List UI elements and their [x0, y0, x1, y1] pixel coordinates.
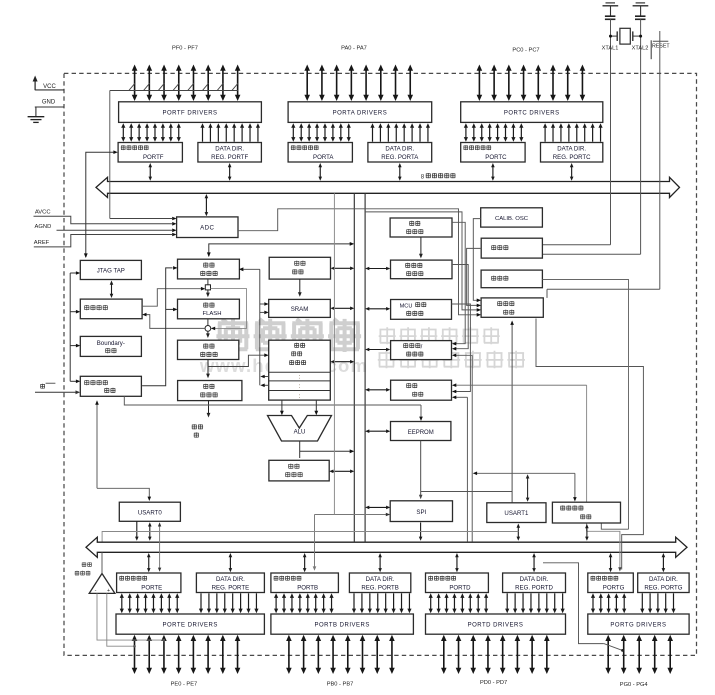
svg-text:PORTE: PORTE [141, 584, 162, 591]
svg-text:VCC: VCC [43, 84, 56, 90]
svg-text:DATA DIR.: DATA DIR. [557, 146, 586, 153]
svg-text:MCU: MCU [400, 304, 413, 310]
svg-text:GND: GND [42, 100, 56, 106]
svg-text:Boundary-: Boundary- [97, 340, 125, 347]
svg-text:JTAG TAP: JTAG TAP [97, 268, 125, 275]
svg-text:REG. PORTB: REG. PORTB [361, 584, 398, 591]
svg-text:DATA DIR.: DATA DIR. [216, 576, 245, 583]
svg-text:AGND: AGND [35, 224, 52, 230]
svg-text:REG. PORTE: REG. PORTE [212, 584, 249, 591]
svg-text:DATA DIR.: DATA DIR. [215, 146, 244, 153]
svg-text:-: - [95, 588, 97, 594]
svg-text:PORTA: PORTA [313, 154, 334, 161]
svg-text:RESET: RESET [652, 44, 670, 50]
svg-text:PORTD DRIVERS: PORTD DRIVERS [468, 622, 524, 628]
svg-text:DATA DIR.: DATA DIR. [385, 146, 414, 153]
svg-text:PORTF: PORTF [143, 154, 164, 161]
svg-text:REG. PORTC: REG. PORTC [553, 154, 591, 161]
svg-text:PA0 - PA7: PA0 - PA7 [341, 46, 367, 52]
svg-text:+: + [107, 588, 110, 594]
svg-text:EEPROM: EEPROM [408, 430, 434, 436]
svg-text:REG. PORTF: REG. PORTF [211, 154, 248, 161]
svg-text:PC0 - PC7: PC0 - PC7 [512, 48, 539, 54]
svg-text:8: 8 [421, 174, 425, 181]
svg-text:DATA DIR.: DATA DIR. [649, 576, 678, 583]
svg-text:PORTC DRIVERS: PORTC DRIVERS [504, 110, 560, 116]
svg-text:AVCC: AVCC [35, 210, 51, 216]
svg-text:PORTF DRIVERS: PORTF DRIVERS [162, 110, 217, 116]
svg-text:PORTC: PORTC [485, 154, 507, 161]
svg-text:PB0 - PB7: PB0 - PB7 [327, 682, 354, 688]
svg-text:PORTG DRIVERS: PORTG DRIVERS [610, 622, 666, 628]
svg-text:USART0: USART0 [138, 510, 163, 517]
svg-text:REG. PORTA: REG. PORTA [381, 154, 419, 161]
svg-text:REG. PORTG: REG. PORTG [644, 584, 682, 591]
svg-text:PORTA DRIVERS: PORTA DRIVERS [333, 110, 388, 116]
svg-text:XTAL2: XTAL2 [632, 46, 649, 52]
svg-text:PORTB DRIVERS: PORTB DRIVERS [314, 622, 369, 628]
svg-text:SRAM: SRAM [291, 306, 309, 313]
svg-text:DATA DIR.: DATA DIR. [520, 576, 549, 583]
svg-text:PORTG: PORTG [603, 584, 625, 591]
svg-text:PORTB: PORTB [297, 584, 318, 591]
svg-text:PD0 - PD7: PD0 - PD7 [480, 680, 507, 686]
svg-text:CALIB. OSC: CALIB. OSC [495, 216, 529, 222]
svg-text:PG0 - PG4: PG0 - PG4 [620, 682, 648, 688]
svg-text:ADC: ADC [200, 225, 214, 232]
svg-text:REG. PORTD: REG. PORTD [515, 584, 553, 591]
svg-text:PORTD: PORTD [449, 584, 471, 591]
svg-text:FLASH: FLASH [203, 311, 222, 317]
svg-text:PF0 - PF7: PF0 - PF7 [172, 46, 198, 52]
svg-text:AREF: AREF [34, 240, 50, 246]
svg-text:DATA DIR.: DATA DIR. [366, 576, 395, 583]
svg-text:SPI: SPI [416, 509, 426, 516]
svg-text:PE0 - PE7: PE0 - PE7 [171, 682, 198, 688]
svg-text:XTAL1: XTAL1 [602, 46, 619, 52]
svg-text:ALU: ALU [294, 429, 306, 436]
svg-text:PORTE DRIVERS: PORTE DRIVERS [162, 622, 217, 628]
svg-text:USART1: USART1 [504, 510, 529, 517]
